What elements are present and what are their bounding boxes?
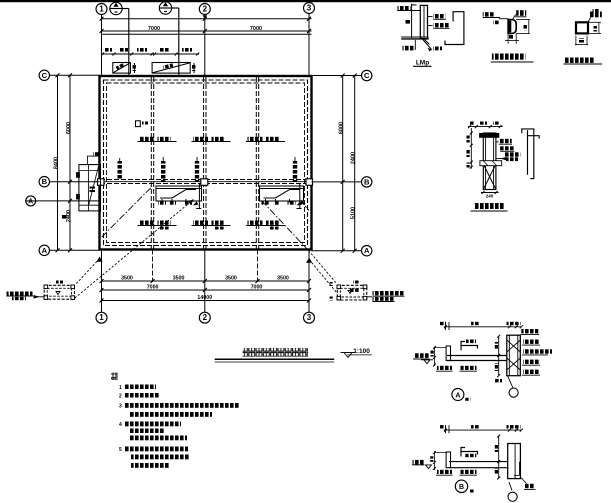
axis bubble 3 bottom bbox=[304, 312, 315, 323]
detail B slab bbox=[446, 452, 508, 468]
detail slope-beam label bbox=[491, 54, 534, 63]
beam label lower bay1 bbox=[138, 221, 177, 230]
embed plate detail bottom-left bbox=[44, 281, 75, 300]
fold line diagonal right room bbox=[262, 201, 309, 251]
left dimension chain outer bbox=[54, 73, 60, 252]
bay grid dashed line 1-2 mid bbox=[151, 77, 153, 249]
detail A slab bbox=[446, 346, 507, 361]
notes header bbox=[111, 373, 118, 381]
canopy side view top dims bbox=[468, 122, 503, 129]
svg-text:5100: 5100 bbox=[351, 207, 357, 219]
svg-text:1: 1 bbox=[119, 385, 122, 391]
detail A vertical dim bbox=[495, 335, 500, 378]
detail A leader circle bbox=[494, 376, 518, 398]
beam label WKL1 bay2 bbox=[192, 137, 231, 142]
canopy rebar hooks bbox=[522, 129, 539, 179]
axis bubble C left bbox=[39, 70, 99, 80]
axis bubble 3 top bbox=[304, 3, 315, 14]
axis bubble B right bbox=[312, 177, 372, 187]
entry canopy plan left protrusion bbox=[62, 152, 101, 220]
drain stub left bbox=[196, 184, 201, 209]
detail LMp channel bracket bbox=[445, 12, 464, 45]
axis 2 grid dashed line bbox=[204, 77, 206, 249]
axis 2 extension line top bbox=[204, 15, 206, 77]
svg-text:B: B bbox=[42, 177, 48, 186]
detail B vertical dim bbox=[495, 435, 500, 480]
svg-text:14000: 14000 bbox=[197, 295, 212, 301]
detail LMp hatch leader bbox=[415, 38, 442, 52]
svg-text:3500: 3500 bbox=[225, 276, 237, 282]
svg-text:6000: 6000 bbox=[339, 122, 345, 134]
svg-text:7000: 7000 bbox=[147, 285, 159, 291]
beam label lower bay3 bbox=[246, 221, 285, 230]
axis bubble 2 top bbox=[199, 4, 210, 20]
detail L2 top label bbox=[588, 9, 602, 22]
section flag callout right bbox=[159, 2, 179, 76]
corner arrow bottom-right bbox=[306, 258, 337, 294]
svg-text:3500: 3500 bbox=[173, 276, 185, 282]
detail B below labels bbox=[436, 470, 477, 475]
canopy side view left dims bbox=[467, 128, 473, 169]
svg-text:8400: 8400 bbox=[54, 157, 60, 169]
plan slab edge dashed rectangle bbox=[104, 80, 308, 246]
bottom extension line axis1 bbox=[101, 250, 103, 313]
fold line diagonal left bbox=[102, 186, 153, 237]
axis bubble 2 bottom bbox=[199, 312, 210, 323]
detail A column section bbox=[507, 335, 521, 376]
svg-text:B: B bbox=[459, 484, 464, 491]
small column symbol upper left bbox=[136, 121, 149, 127]
detail A below labels bbox=[436, 366, 477, 371]
svg-text:1: 1 bbox=[99, 313, 104, 322]
detail B top dims bbox=[440, 425, 523, 433]
svg-text:4: 4 bbox=[119, 422, 122, 428]
slope box side ticks bbox=[133, 63, 196, 73]
plan outer wall rectangle bbox=[100, 76, 312, 250]
vertical beam label near mid1 bbox=[161, 157, 165, 182]
detail B left vdim bbox=[430, 451, 447, 470]
detail B column section bbox=[508, 444, 521, 479]
left dimension chain inner bbox=[66, 73, 72, 252]
note item 2 bbox=[119, 393, 160, 400]
svg-text:1:100: 1:100 bbox=[353, 348, 370, 355]
right dimension chain outer bbox=[351, 74, 357, 253]
detail L2 label bbox=[563, 58, 602, 65]
detail A name bubble bbox=[452, 389, 470, 401]
top small dimension chain bbox=[101, 48, 199, 56]
svg-text:5: 5 bbox=[119, 447, 122, 453]
svg-text:LMp: LMp bbox=[416, 60, 429, 67]
vertical beam label near axis2 bbox=[195, 157, 199, 182]
svg-text:2400: 2400 bbox=[351, 152, 357, 164]
embed plate label bottom-right bbox=[367, 291, 405, 302]
svg-text:C: C bbox=[42, 71, 48, 80]
axis bubble A right bbox=[312, 246, 372, 256]
beam label WKL1 bay3 bbox=[246, 137, 285, 142]
column at B-3 bbox=[306, 179, 313, 186]
column at B-1 bbox=[98, 179, 105, 186]
detail L2 bottom dim bbox=[575, 36, 588, 46]
vertical beam label near axis3 bbox=[293, 157, 297, 182]
note item 1 bbox=[119, 385, 156, 392]
detail B right label bbox=[520, 477, 535, 489]
svg-text:2: 2 bbox=[203, 313, 208, 322]
axis bubble A left bbox=[39, 245, 99, 255]
detail B left label bbox=[412, 460, 432, 469]
right dimension chain inner bbox=[339, 74, 345, 253]
detail slope-beam right dim bbox=[516, 20, 530, 34]
detail B bent bar bbox=[461, 448, 478, 458]
svg-text:1: 1 bbox=[99, 5, 104, 14]
bay grid dashed line 2-3 mid bbox=[256, 77, 258, 249]
detail L2 square section bbox=[576, 22, 588, 33]
axis bubble 1 top bbox=[96, 4, 107, 15]
detail LMp label bbox=[413, 60, 432, 67]
canopy side view right leaders bbox=[496, 139, 520, 161]
canopy slab hatched right bbox=[260, 186, 304, 206]
axis bubble A-sub left bbox=[26, 196, 100, 206]
top dimension line upper bbox=[100, 17, 312, 21]
svg-text:A: A bbox=[42, 246, 48, 255]
canopy side view column bbox=[479, 133, 502, 190]
bottom dimension line 3500x4 bbox=[100, 276, 312, 284]
section flag callout left bbox=[110, 2, 129, 76]
leader diagonal to left detail bbox=[73, 200, 194, 301]
detail L2 right dim bbox=[588, 22, 601, 33]
column at B-2 bbox=[201, 179, 208, 186]
detail A left label bbox=[413, 353, 433, 363]
note item 3 bbox=[119, 403, 240, 417]
svg-text:3: 3 bbox=[307, 4, 312, 13]
svg-text:7000: 7000 bbox=[148, 26, 160, 32]
svg-text:A: A bbox=[455, 392, 460, 399]
svg-text:2: 2 bbox=[203, 5, 208, 14]
beam label lower bay2 bbox=[192, 221, 231, 230]
canopy side view bottom dim bbox=[481, 191, 499, 199]
bottom dimension line 7000x2 bbox=[100, 285, 312, 293]
svg-text:2: 2 bbox=[119, 394, 122, 400]
bottom dimension line 14000 bbox=[100, 295, 312, 303]
leader diagonal to right detail bbox=[300, 200, 337, 285]
border frame top bar bbox=[0, 0, 611, 2]
svg-text:3: 3 bbox=[119, 404, 122, 410]
beam label WKL1 bay1 bbox=[138, 137, 177, 142]
canopy side view label bbox=[471, 203, 508, 211]
detail B name bubble bbox=[455, 480, 474, 492]
detail LMp texts bbox=[398, 6, 450, 50]
detail A top dims bbox=[440, 322, 523, 330]
detail slope-beam section bbox=[508, 20, 516, 34]
svg-text:A: A bbox=[28, 198, 33, 205]
svg-text:2400: 2400 bbox=[66, 210, 72, 222]
svg-text:3500: 3500 bbox=[121, 276, 133, 282]
bottom extension dashed mid2 bbox=[257, 250, 259, 283]
corner arrow bottom-left bbox=[75, 257, 103, 286]
vertical beam label near axis1 bbox=[118, 158, 122, 180]
title scale 1:100 bbox=[341, 348, 372, 358]
bottom extension line axis3 bbox=[308, 250, 310, 313]
detail LMp outline bbox=[397, 4, 429, 39]
drawing title bbox=[215, 348, 335, 362]
axis bubble B left bbox=[39, 177, 99, 187]
drain stub right bbox=[297, 184, 302, 209]
detail B leader circle bbox=[508, 482, 517, 501]
axis 3 extension line top bbox=[308, 14, 310, 77]
detail slope-beam left labels bbox=[483, 12, 508, 24]
beam WKL on axis B dashed bbox=[100, 180, 311, 184]
embed plate detail bottom-right bbox=[330, 281, 367, 301]
detail slope-beam bottom dim bbox=[505, 34, 519, 44]
canopy slab hatched left bbox=[156, 186, 202, 206]
top dimension line 7000+7000 bbox=[100, 26, 312, 33]
axis 1 extension line top bbox=[101, 15, 103, 77]
svg-text:A: A bbox=[364, 246, 370, 255]
detail A bent bar bbox=[461, 340, 478, 351]
svg-text:7000: 7000 bbox=[251, 285, 263, 291]
svg-text:240: 240 bbox=[486, 194, 494, 199]
detail A right labels bbox=[521, 329, 553, 375]
embed plate label bottom-left bbox=[7, 292, 45, 301]
detail A left vdim bbox=[431, 346, 447, 367]
plan inner dashed line second bbox=[107, 83, 305, 243]
roof slope box left bbox=[113, 63, 131, 74]
svg-text:3: 3 bbox=[307, 313, 312, 322]
axis bubble 1 bottom bbox=[96, 312, 107, 323]
axis bubble C right bbox=[312, 70, 372, 80]
top dimension line lower bbox=[102, 33, 312, 35]
svg-text:B: B bbox=[364, 177, 370, 186]
svg-text:3500: 3500 bbox=[277, 276, 289, 282]
note item 5 bbox=[119, 447, 189, 468]
svg-text:7000: 7000 bbox=[250, 26, 262, 32]
svg-text:6000: 6000 bbox=[66, 122, 72, 134]
bottom extension line axis2 bbox=[204, 250, 206, 313]
svg-text:C: C bbox=[364, 71, 370, 80]
detail slope-beam top-right label bbox=[513, 10, 527, 19]
roof slope box right bbox=[152, 63, 190, 74]
bottom extension dashed mid1 bbox=[152, 250, 154, 283]
note item 4 bbox=[119, 422, 187, 441]
